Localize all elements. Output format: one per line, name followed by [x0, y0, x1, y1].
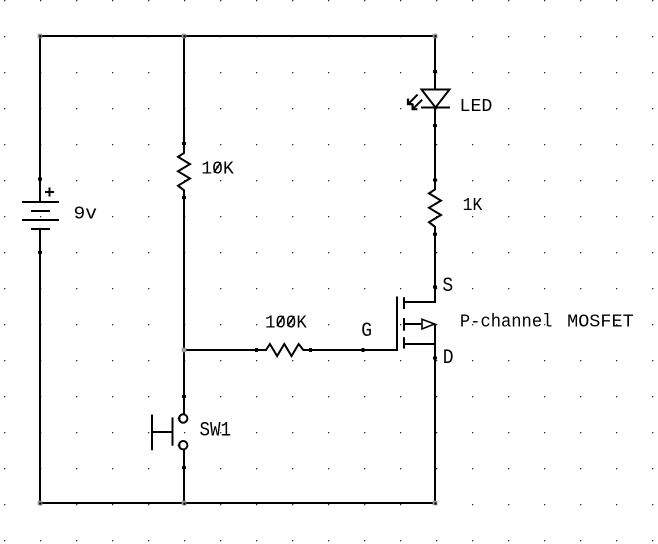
- resistor R2 pin 2 tick: [309, 348, 312, 352]
- resistor R2 pin 1 tick: [255, 348, 258, 352]
- MOSFET gate pin tick: [362, 348, 365, 352]
- junction node B (184,503): [182, 501, 187, 506]
- wire bottom rail: [39, 502, 436, 504]
- wire gate branch right segment: [311, 349, 398, 351]
- MOSFET drain pin tick: [433, 357, 437, 360]
- resistor R1 10K: [178, 144, 190, 198]
- battery B1: [22, 188, 59, 230]
- switch SW1 pin 2 tick: [182, 466, 186, 469]
- resistor R3 pin 2 tick: [433, 233, 437, 236]
- svg-text:9v: 9v: [74, 205, 98, 225]
- svg-text:G: G: [361, 319, 372, 342]
- wire switch column upper: [183, 350, 185, 415]
- junction marker top-left corner (40,36): [38, 34, 43, 39]
- resistor R1 pin 1 tick: [182, 142, 186, 145]
- switch SW1 pushbutton: [152, 414, 187, 450]
- wire middle column (10K to gate junction): [183, 198, 185, 351]
- svg-text:P-channel: P-channel: [460, 313, 553, 333]
- LED pin 1 tick: [433, 70, 437, 73]
- resistor R3 1K: [429, 180, 441, 234]
- LED D1: [409, 90, 450, 109]
- wire left rail upper (battery +): [39, 35, 41, 202]
- svg-text:S: S: [442, 274, 453, 297]
- wire 1K to MOSFET source: [434, 234, 436, 303]
- svg-text:1K: 1K: [463, 196, 483, 216]
- svg-text:100K: 100K: [265, 313, 307, 333]
- switch SW1 pin 1 tick: [182, 395, 186, 398]
- resistor R3 pin 1 tick: [433, 179, 437, 182]
- wire left rail lower (battery -): [39, 228, 41, 504]
- LED light arrowhead 2: [413, 104, 418, 110]
- wire switch to bottom rail: [183, 449, 185, 504]
- junction marker top-right corner (435,36): [433, 34, 438, 39]
- wire gate branch left segment: [183, 349, 257, 351]
- wire right column top: [434, 35, 436, 91]
- svg-text:MOSFET: MOSFET: [567, 313, 634, 333]
- LED pin 2 tick: [433, 124, 437, 127]
- svg-text:10K: 10K: [201, 160, 234, 180]
- wire top rail: [39, 35, 436, 37]
- junction marker bottom-right corner (435,503): [433, 501, 438, 506]
- junction node A (184,36): [182, 34, 187, 39]
- LED light arrowhead 1: [408, 99, 413, 105]
- battery pin - tick: [38, 251, 42, 254]
- MOSFET source pin tick: [433, 286, 437, 289]
- svg-text:D: D: [443, 346, 454, 369]
- junction node gate branch (184,350): [182, 348, 187, 353]
- svg-text:LED: LED: [460, 97, 493, 117]
- wire LED to 1K: [434, 108, 436, 181]
- junction marker bottom-left corner (40,503): [38, 501, 43, 506]
- resistor R2 100K: [257, 344, 311, 356]
- transistor Q1 P-channel MOSFET: [397, 297, 436, 352]
- wire MOSFET drain to bottom rail: [434, 324, 436, 504]
- wire middle column top: [183, 35, 185, 144]
- resistor R1 pin 2 tick: [182, 196, 186, 199]
- svg-text:SW1: SW1: [200, 419, 232, 442]
- battery pin + tick: [38, 178, 42, 181]
